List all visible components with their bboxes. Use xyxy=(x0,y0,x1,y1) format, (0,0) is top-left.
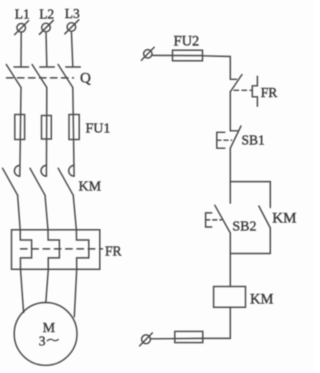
switch Q pole 3 xyxy=(58,65,80,88)
wire FR contact to SB1 xyxy=(229,92,231,131)
pushbutton SB2 (NO start) blade xyxy=(215,205,231,233)
svg-text:SB2: SB2 xyxy=(232,220,256,235)
pushbutton SB1 (NC stop) seat bar xyxy=(230,130,237,132)
terminal L2 xyxy=(39,20,53,34)
svg-text:FR: FR xyxy=(261,85,278,100)
svg-text:FU1: FU1 xyxy=(86,122,111,137)
fuse FU1 pole 1 xyxy=(15,115,25,140)
pushbutton SB1 actuator rod (dashed) xyxy=(217,139,232,141)
fuse FU2 xyxy=(173,50,203,61)
motor M circle xyxy=(14,303,77,366)
wire switch through FU1 to KM pole 3 xyxy=(73,88,74,177)
contactor KM main contact pole 1 xyxy=(3,165,20,195)
switch Q pole 1 xyxy=(6,65,28,88)
wire KM to FR pole 3 xyxy=(73,195,76,230)
relay contact FR thermal element xyxy=(252,76,257,106)
wire terminal to FU2 xyxy=(152,54,203,56)
wire switch through FU1 to KM pole 1 xyxy=(20,88,21,177)
pushbutton SB1 actuator xyxy=(217,132,225,148)
wire SB2 to coil xyxy=(229,233,231,287)
wire right branch lower xyxy=(269,228,271,254)
switch Q linkage (dashed) xyxy=(7,77,74,79)
wire switch through FU1 to KM pole 2 xyxy=(45,88,47,177)
fuse bottom (control return) xyxy=(175,331,203,342)
wire coil to bottom corner xyxy=(201,307,230,338)
wire top branch xyxy=(230,181,270,183)
wire KM to FR pole 2 xyxy=(45,195,48,230)
coil KM xyxy=(214,287,246,308)
svg-text:FR: FR xyxy=(105,244,122,259)
wire bottom branch xyxy=(230,253,270,255)
control circuit terminal bottom left xyxy=(140,333,153,346)
svg-text:Q: Q xyxy=(80,71,91,87)
wire L2 to switch xyxy=(45,32,48,66)
svg-text:KM: KM xyxy=(250,291,273,307)
terminal L3 xyxy=(65,20,79,34)
pushbutton SB2 actuator xyxy=(206,213,212,227)
relay contact FR linkage (dashed) xyxy=(234,89,252,91)
thermal relay FR heater pole 1 xyxy=(20,230,31,269)
svg-text:KM: KM xyxy=(79,179,102,194)
wire SB2 top lead xyxy=(229,182,231,204)
wire L1 to switch xyxy=(20,32,22,66)
thermal relay FR linkage (dashed) xyxy=(21,248,103,250)
pushbutton SB1 blade xyxy=(230,126,241,148)
thermal relay FR heater pole 2 xyxy=(48,230,59,269)
wire SB1 to branch junction xyxy=(229,148,231,181)
motor tilde xyxy=(47,339,58,341)
fuse FU1 pole 3 xyxy=(69,115,79,140)
wire FR to motor pole 2 xyxy=(46,269,49,302)
svg-text:FU2: FU2 xyxy=(174,33,200,49)
svg-text:L2: L2 xyxy=(39,6,54,21)
fuse FU1 pole 2 xyxy=(42,116,52,140)
svg-text:L1: L1 xyxy=(15,7,30,22)
wire FR to motor pole 1 xyxy=(21,269,24,312)
contactor KM main contact pole 2 xyxy=(30,165,46,195)
relay contact FR (NC) seat bar xyxy=(230,78,236,80)
switch Q pole 2 xyxy=(32,65,54,88)
thermal relay FR box xyxy=(12,230,100,269)
wire KM to FR pole 1 xyxy=(18,195,21,230)
svg-text:3: 3 xyxy=(39,333,46,348)
wire right branch upper xyxy=(269,182,271,208)
svg-text:KM: KM xyxy=(272,211,296,227)
wire L3 to switch xyxy=(71,31,72,66)
svg-text:SB1: SB1 xyxy=(242,133,265,148)
wire FR to motor pole 3 xyxy=(74,269,76,317)
wire fuse to bottom terminal xyxy=(150,337,201,339)
wire FU2 to corner and down xyxy=(203,56,231,80)
terminal L1 xyxy=(15,21,29,35)
control circuit terminal top left xyxy=(141,47,154,60)
svg-text:L3: L3 xyxy=(65,6,80,21)
relay contact FR blade xyxy=(231,75,243,92)
thermal relay FR heater pole 3 xyxy=(76,230,88,269)
pushbutton SB2 actuator rod (dashed) xyxy=(206,219,222,221)
contactor KM auxiliary contact blade xyxy=(259,206,271,228)
contactor KM main contact pole 3 xyxy=(58,165,74,195)
